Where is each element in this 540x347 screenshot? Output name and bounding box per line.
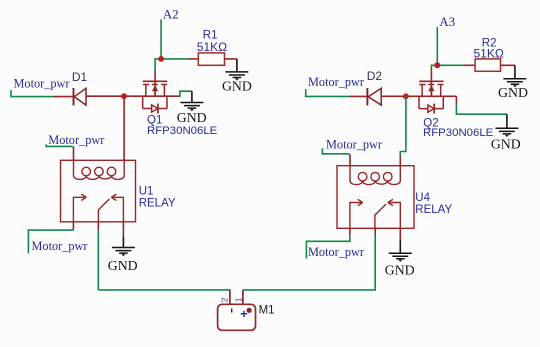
svg-text:51KΩ: 51KΩ xyxy=(197,40,227,54)
relay U1 xyxy=(61,160,136,222)
minus mark in M1 xyxy=(231,309,233,313)
junction dot at A2/R1 xyxy=(158,56,164,62)
svg-text:Motor_pwr: Motor_pwr xyxy=(14,76,70,90)
wire Motor_pwr to U4 coil pin 1 xyxy=(322,148,350,166)
motor M1 xyxy=(218,304,256,330)
ground symbol near Q1 xyxy=(180,103,203,109)
wire junction to relay U4 coil xyxy=(400,96,406,165)
svg-text:RFP30N06LE: RFP30N06LE xyxy=(423,127,494,139)
plus mark in M1 xyxy=(241,311,248,317)
wire bottom rail left to M1 pin 2 xyxy=(98,289,230,291)
svg-text:RELAY: RELAY xyxy=(139,198,176,210)
wire junction to Q2 drain xyxy=(431,65,437,96)
transistor Q2 xyxy=(419,81,444,113)
svg-text:D1: D1 xyxy=(72,70,88,84)
svg-text:U4: U4 xyxy=(415,192,430,204)
wire bottom rail right from M1 pin 1 to U4 common xyxy=(243,234,375,290)
wire U4 right contact to GND xyxy=(399,228,401,252)
ground symbol below U4 xyxy=(389,253,412,259)
wire U1 right contact to GND xyxy=(122,222,124,247)
wire U4 left contact to Motor_pwr xyxy=(306,228,350,258)
svg-text:GND: GND xyxy=(222,79,252,94)
svg-text:U1: U1 xyxy=(139,186,154,198)
svg-text:RELAY: RELAY xyxy=(415,204,452,216)
ground symbol near R2 xyxy=(503,79,526,85)
svg-text:51KΩ: 51KΩ xyxy=(474,46,504,60)
svg-text:GND: GND xyxy=(177,110,207,125)
svg-text:RFP30N06LE: RFP30N06LE xyxy=(147,125,218,137)
wire A3 to junction xyxy=(436,27,438,65)
relay U4 xyxy=(337,166,414,229)
svg-text:Motor_pwr: Motor_pwr xyxy=(326,138,382,152)
wire A2 to junction xyxy=(160,20,162,59)
wire Q1 source to GND xyxy=(180,91,192,102)
resistor R1 xyxy=(198,53,224,65)
ground symbol near R1 xyxy=(225,72,248,78)
junction dot at D1/Q1 xyxy=(121,93,127,99)
svg-text:GND: GND xyxy=(385,262,415,277)
svg-text:GND: GND xyxy=(108,258,138,273)
diode D2 xyxy=(367,88,381,105)
junction dot at A3/R2 xyxy=(434,62,440,68)
svg-text:2: 2 xyxy=(220,297,230,302)
wire R1 to GND xyxy=(225,59,237,71)
wire R2 to GND xyxy=(501,65,515,78)
wire U1 left contact to Motor_pwr xyxy=(28,222,73,254)
svg-text:A3: A3 xyxy=(439,14,455,29)
svg-text:1: 1 xyxy=(233,297,243,302)
svg-text:Motor_pwr: Motor_pwr xyxy=(308,75,364,89)
wire U4 common down xyxy=(374,228,376,234)
wire Motor_pwr to U1 coil pin 1 xyxy=(46,144,73,160)
svg-text:D2: D2 xyxy=(367,69,383,83)
wire D2 to Q2 gate and source rail xyxy=(381,95,456,97)
pin M1.1 xyxy=(242,290,244,304)
svg-text:Motor_pwr: Motor_pwr xyxy=(308,245,364,259)
wire junction to relay U1 coil xyxy=(123,96,125,160)
resistor R2 xyxy=(475,59,500,71)
wire Motor_pwr to D2 xyxy=(306,89,367,96)
wire junction to Q1 drain xyxy=(155,59,161,96)
pin M1.2 xyxy=(229,290,231,304)
wire junction to R2 xyxy=(437,64,475,66)
junction dot at D2/Q2 xyxy=(403,93,409,99)
transistor Q1 xyxy=(143,81,168,113)
svg-text:Motor_pwr: Motor_pwr xyxy=(48,133,104,147)
wire Q2 source to GND xyxy=(456,96,507,127)
svg-text:A2: A2 xyxy=(163,7,179,22)
svg-text:GND: GND xyxy=(498,85,528,100)
wire Motor_pwr to D1 xyxy=(11,90,73,97)
svg-text:Motor_pwr: Motor_pwr xyxy=(32,239,88,253)
wire D1 to Q1 gate and source rail xyxy=(86,95,180,97)
wire U1 common down xyxy=(97,222,99,290)
terminal dot in M1 xyxy=(247,308,252,313)
diode D1 xyxy=(74,88,87,105)
wire junction to R1 xyxy=(161,58,198,60)
svg-text:GND: GND xyxy=(491,137,521,152)
ground symbol below U1 xyxy=(112,248,135,254)
svg-text:M1: M1 xyxy=(259,305,275,317)
ground symbol near Q2 xyxy=(495,128,518,134)
